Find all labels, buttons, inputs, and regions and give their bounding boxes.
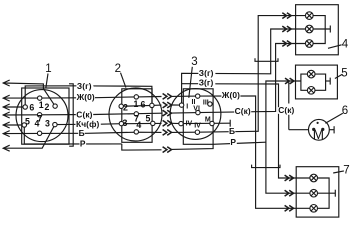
- svg-text:Р: Р: [80, 138, 86, 148]
- box5 lamp loop: [301, 74, 308, 90]
- svg-text:IV: IV: [186, 121, 193, 128]
- X1 pin top: [38, 96, 42, 100]
- wire З(г)2 branch from pin-I column to right bus, down to box7 row1: [182, 83, 199, 85]
- wire: X1 pin6 up to З(г): [25, 86, 94, 107]
- svg-text:3: 3: [123, 118, 128, 128]
- svg-text:7: 7: [38, 113, 43, 123]
- svg-text:5: 5: [341, 67, 347, 79]
- lamp L2: [306, 25, 314, 33]
- wire Кч row to X2: [101, 122, 162, 125]
- X1 pin bottom: [37, 131, 41, 135]
- wire З(г) over X2 down into X2 pin6: [94, 86, 152, 106]
- wire: arrow to X1 pin6: [3, 106, 25, 108]
- svg-text:2: 2: [45, 102, 50, 112]
- wire value label З(г) upper: [198, 70, 215, 76]
- svg-text:Р: Р: [230, 137, 236, 147]
- chevrons into box4: [282, 13, 291, 47]
- lamp L1: [306, 12, 314, 20]
- lamp L7: [310, 189, 318, 197]
- svg-text:1: 1: [39, 100, 44, 110]
- arrow A5: [3, 122, 10, 128]
- cable bracket bottom right: [252, 165, 280, 168]
- label 6 leader: [325, 113, 342, 123]
- svg-text:6: 6: [342, 105, 348, 117]
- lamp L8: [310, 205, 318, 213]
- chevrons into box7: [285, 175, 294, 211]
- svg-text:VI: VI: [193, 105, 200, 112]
- label 1 leader: [46, 74, 48, 89]
- С/Р net column with box5 feed and box7 row2: [266, 81, 310, 193]
- svg-text:3: 3: [191, 56, 197, 68]
- svg-text:4: 4: [136, 120, 141, 130]
- label 5 leader: [335, 74, 343, 78]
- wire value label С(к) motor branch: [278, 107, 294, 114]
- wire Кч row X3 pins to terminal: [181, 122, 230, 124]
- arrow A1: [3, 80, 10, 86]
- svg-text:5: 5: [145, 114, 150, 124]
- svg-text:1: 1: [134, 99, 139, 109]
- X2 pins: [134, 95, 138, 99]
- X3 pin I up to З(г)1 wire to right bus corner up box4 row2: [182, 29, 306, 105]
- svg-text:6: 6: [29, 102, 34, 112]
- X1 pin 6: [23, 105, 27, 109]
- svg-text:3: 3: [45, 119, 50, 129]
- svg-text:III: III: [203, 99, 209, 106]
- wire: X1 pin5 down to р: [24, 125, 122, 144]
- svg-text:З(г): З(г): [199, 78, 214, 88]
- svg-text:Б: Б: [79, 128, 85, 138]
- box 7: [296, 167, 339, 217]
- motor column lower: [288, 115, 290, 130]
- svg-text:Б: Б: [229, 126, 235, 136]
- wire: bottom arrow diagonal to X1 pin3: [3, 125, 55, 149]
- svg-text:5: 5: [25, 117, 30, 127]
- wire value label Ж(0) right: [221, 92, 240, 98]
- svg-text:6: 6: [140, 99, 145, 109]
- motor 6: [309, 119, 330, 140]
- connector X3 housing rect: [183, 89, 213, 145]
- connector X1 housing rect: [22, 88, 69, 144]
- svg-text:С(к): С(к): [278, 105, 294, 115]
- svg-text:M: M: [205, 116, 211, 123]
- wire: arrow to X1 pin5: [3, 124, 24, 126]
- lamp L6: [310, 174, 318, 182]
- arrow A6: [3, 131, 10, 137]
- arrow A4: [3, 112, 10, 118]
- lamp L5: [307, 87, 315, 95]
- svg-text:1: 1: [45, 63, 51, 75]
- svg-text:2: 2: [115, 63, 121, 75]
- wire: X1 pin2 up-left to arrow: [3, 83, 55, 106]
- X1 pin 5: [22, 123, 26, 127]
- svg-text:I: I: [186, 104, 188, 111]
- wire row Б: arrow through X1 bottom pin: [3, 132, 87, 134]
- motor feed wire: [289, 129, 309, 131]
- label 2 leader: [121, 73, 126, 88]
- wire value label С(к) right: [234, 108, 251, 114]
- arrow A7: [3, 145, 10, 151]
- X3 pins: [196, 94, 200, 98]
- lamp L4: [307, 70, 315, 78]
- arrow A2: [3, 95, 10, 101]
- X1 pin 2: [53, 104, 57, 108]
- label 3 leader: [189, 67, 193, 98]
- X2 row 2-6 wire: [121, 105, 161, 106]
- wire Б row to X2: [87, 132, 162, 133]
- svg-text:2: 2: [123, 102, 128, 112]
- svg-text:7: 7: [343, 164, 349, 176]
- wire value label Кч(ф): [76, 121, 102, 128]
- wires chevron to X3: [172, 95, 198, 97]
- svg-text:Ж(0): Ж(0): [221, 90, 240, 100]
- X1 pin center: [37, 113, 41, 117]
- connector X2 housing rect: [122, 89, 152, 143]
- connector X1 circle: [16, 90, 68, 142]
- wire value label Б: [78, 130, 85, 137]
- wire value label З(г) lower: [198, 80, 215, 86]
- box 5: [296, 65, 338, 99]
- wire value label Б right: [229, 128, 236, 134]
- svg-text:IV: IV: [194, 123, 201, 130]
- wire р jog under X2: [122, 144, 162, 150]
- wire row Ж: arrow to X1 top pin to label: [3, 97, 95, 99]
- arrow A3: [3, 104, 10, 110]
- box7 lamp loop wiring: [318, 178, 330, 208]
- svg-text:З(г): З(г): [77, 81, 92, 91]
- wire value label Р: [80, 140, 87, 147]
- box 4: [296, 5, 339, 55]
- wire value label Ж(0): [76, 94, 95, 101]
- terminal bar M-pin: [229, 120, 231, 127]
- wire: X1 pin3 to Кч label: [55, 123, 101, 125]
- svg-text:С(к): С(к): [235, 106, 251, 116]
- wire value label З(г): [76, 83, 93, 90]
- wire С row to X2: [94, 113, 162, 114]
- wire row С: arrow through X1 center pin: [3, 114, 93, 117]
- wire Ж row to X2: [95, 97, 162, 98]
- wire Б from X3 bottom pin, corner up to box4 row1: [197, 16, 305, 133]
- wire р under X3 up to Р label: [172, 142, 266, 149]
- svg-text:4: 4: [342, 39, 349, 51]
- wire value label С(к): [76, 112, 93, 119]
- box4 lamp loop wiring: [313, 16, 325, 44]
- label 4 leader: [328, 45, 342, 49]
- cable bracket left: [69, 84, 73, 146]
- chevron into box5: [285, 78, 294, 84]
- lamp L3: [306, 40, 314, 48]
- wire value label Р right: [230, 139, 237, 145]
- wire Ж from X3 top pin right, corner down to box7 row3: [198, 96, 310, 208]
- label 7 leader: [333, 171, 344, 173]
- svg-text:Ж(0): Ж(0): [76, 92, 95, 102]
- chevrons X2 to X3: [163, 94, 172, 153]
- connector X2 circle: [109, 88, 162, 141]
- wire С from X3 center pin, corner up to box4 row3: [198, 44, 306, 113]
- X1 pin 3: [53, 122, 57, 126]
- motor column upper (gap at С(к) label): [288, 81, 290, 104]
- connector X3 circle: [170, 89, 221, 140]
- cable bracket top right: [255, 58, 278, 61]
